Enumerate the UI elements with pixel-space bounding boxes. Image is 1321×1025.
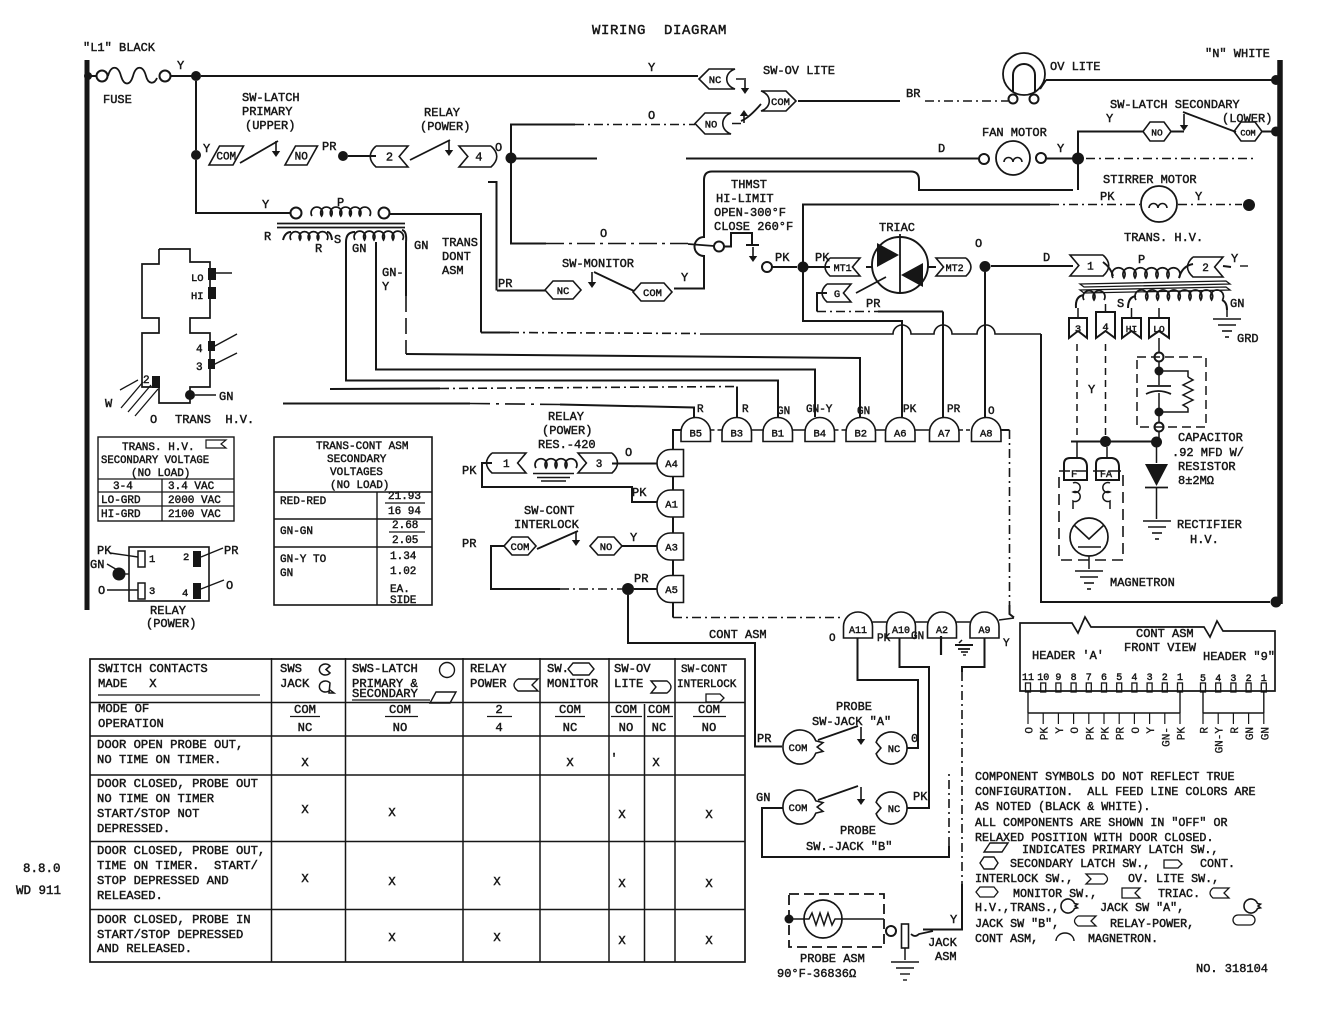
wire GN tap2 to B1 [346,242,778,417]
label CAPACITOR [1172,431,1244,488]
svg-text:CONT ASM: CONT ASM [709,628,767,642]
wire O down to thermostat [511,163,714,246]
svg-text:G: G [834,289,840,301]
svg-text:NO. 318104: NO. 318104 [1196,962,1268,976]
connector B2 [846,418,876,442]
svg-text:X: X [705,877,713,891]
capacitor box dashed [1137,357,1206,427]
label TRANS CONT ASM bracket [442,236,478,278]
svg-text:SIDE: SIDE [390,595,417,607]
table header SW MONITOR [547,662,598,691]
wire probe A NC to A11 [858,638,919,748]
connector A5 [657,576,684,603]
actuator arrow latch secondary [1180,114,1188,131]
svg-text:X: X [301,803,309,817]
svg-text:PK: PK [1085,727,1097,741]
svg-text:COM: COM [511,542,530,554]
svg-text:COM: COM [559,703,581,717]
svg-text:SW.: SW. [547,662,569,676]
svg-text:TIME ON TIMER. START/: TIME ON TIMER. START/ [97,859,258,873]
connector A9 [970,612,999,638]
svg-text:TRANS H.V.: TRANS H.V. [175,413,254,427]
svg-text:AND RELEASED.: AND RELEASED. [97,942,192,956]
wire NO to arrow [1171,131,1184,133]
svg-text:X: X [618,934,626,948]
wire Y to primary [196,160,291,213]
hv primary coil [1103,253,1193,278]
svg-text:Y: Y [630,531,637,545]
svg-text:1: 1 [149,554,155,566]
svg-text:LO-GRD: LO-GRD [101,495,141,507]
label Y jack [950,913,957,927]
svg-text:NC: NC [298,721,313,735]
svg-text:HI-LIMIT: HI-LIMIT [716,192,774,206]
svg-text:RES.-420: RES.-420 [538,438,596,452]
svg-text:WD 911: WD 911 [16,884,61,898]
svg-text:DOOR OPEN PROBE OUT,: DOOR OPEN PROBE OUT, [97,738,243,752]
wire Y filament 4 [1105,344,1107,436]
header B cable [1203,691,1264,724]
junction dot PR A5 [622,583,634,595]
wire A9 to jack Y [923,638,985,930]
cont asm front view box [1020,617,1275,691]
header B wire labels [1200,727,1273,754]
terminal 4 arrow [208,334,237,351]
svg-text:O: O [829,633,836,645]
label PR gate [866,297,880,311]
notes line12 [975,932,1158,946]
label GN over B1 [777,406,790,418]
notes line5 [975,831,1213,845]
label PK coil [462,464,477,478]
label R over B5 [697,404,704,416]
svg-text:SW-OV LITE: SW-OV LITE [763,64,835,78]
hv secondary small [1076,291,1124,311]
label GN pictorial [219,390,233,404]
svg-text:FAN MOTOR: FAN MOTOR [982,126,1047,140]
svg-text:D: D [1043,251,1050,265]
switch blade probe B [818,786,858,800]
wire Y dashdot to right [1086,158,1256,160]
svg-text:INTERLOCK: INTERLOCK [514,518,580,532]
svg-text:(UPPER): (UPPER) [245,119,295,133]
svg-text:LITE: LITE [614,677,643,691]
svg-text:RELAY: RELAY [548,410,584,424]
svg-text:NO: NO [600,542,613,554]
actuator arrow ov-lite [741,80,749,94]
trans hv pictorial body [142,249,210,403]
svg-text:R: R [1230,727,1242,734]
svg-text:DOOR CLOSED, PROBE OUT: DOOR CLOSED, PROBE OUT [97,777,258,791]
probe thermistor [785,900,885,938]
svg-text:H.V.: H.V. [1190,533,1219,547]
connector A1 [657,490,684,517]
svg-text:COM: COM [698,703,720,717]
label 8.8.0 [23,862,61,876]
svg-text:2.68: 2.68 [392,520,418,532]
svg-text:GN-: GN- [1161,727,1173,747]
bracket trans cont asm [488,182,497,291]
svg-text:Y: Y [262,198,269,212]
svg-text:GN-Y: GN-Y [1215,727,1227,754]
svg-text:OV LITE: OV LITE [1050,60,1100,74]
wire Y filament 3 [1076,344,1078,438]
label PR latch primary [322,140,336,154]
label PR over A7 [947,404,961,416]
switch blade monitor [594,272,634,291]
svg-text:SW-LATCH SECONDARY: SW-LATCH SECONDARY [1110,98,1240,112]
label PR interlock [462,537,476,551]
svg-text:2.05: 2.05 [392,535,418,547]
svg-text:COM: COM [648,703,670,717]
label Y A9 [1003,638,1010,650]
svg-text:ALL COMPONENTS ARE SHOWN IN "O: ALL COMPONENTS ARE SHOWN IN "OFF" OR [975,816,1228,830]
wire F up [1076,442,1078,459]
junction dot stirrer Y [1243,199,1255,211]
svg-text:NO: NO [1151,128,1163,139]
header B pins [1200,674,1267,692]
svg-text:START/STOP NOT: START/STOP NOT [97,807,199,821]
label Y fan right [1057,142,1064,156]
svg-text:4: 4 [182,588,188,600]
svg-text:NC: NC [563,721,578,735]
label O thermostat [600,227,607,241]
svg-text:MAGNETRON.: MAGNETRON. [1088,932,1158,946]
trans-cont primary P [291,196,390,219]
svg-text:R: R [742,404,749,416]
svg-text:SECONDARY VOLTAGE: SECONDARY VOLTAGE [101,455,209,467]
wire A8 to header [1001,430,1014,618]
svg-text:GRD: GRD [1237,332,1259,346]
svg-text:9: 9 [1055,673,1061,684]
svg-text:B4: B4 [813,429,826,441]
junction dot cap-filament [1151,437,1162,448]
wire LO to cap [1155,338,1164,362]
svg-text:O: O [1131,727,1143,734]
svg-text:HEADER 'A': HEADER 'A' [1032,649,1104,663]
notes line8 [975,872,1219,886]
svg-text:PR: PR [462,537,476,551]
table header col1 [98,662,260,695]
svg-text:(NO LOAD): (NO LOAD) [330,480,389,492]
svg-text:GN-Y TO: GN-Y TO [280,554,327,566]
svg-text:GN: GN [352,242,366,256]
wire Y up to latch secondary [1078,132,1143,154]
capacitor C1 [1146,362,1171,417]
table header SWS JACK [280,662,334,693]
label SW-LATCH SECONDARY (LOWER) [1110,98,1272,126]
hv core [1080,281,1230,293]
svg-text:JACK SW "B",: JACK SW "B", [975,917,1059,931]
wire GN loop probe B [762,772,949,857]
svg-text:Y: Y [1146,727,1158,734]
svg-text:NC: NC [709,75,722,87]
trans-cont secondary R coil [264,230,332,256]
svg-text:2000 VAC: 2000 VAC [168,495,221,507]
label MAGNETRON [1110,576,1175,590]
svg-text:PK: PK [903,404,917,416]
hv terminal LO [1149,308,1169,338]
svg-text:DOOR CLOSED, PROBE OUT,: DOOR CLOSED, PROBE OUT, [97,844,265,858]
svg-text:SWITCH CONTACTS: SWITCH CONTACTS [98,662,208,676]
label SW-LATCH PRIMARY (UPPER) [242,91,300,133]
svg-text:X: X [388,931,396,945]
connector A3 [657,533,684,560]
junction dot PR [338,151,348,161]
label Y stirrer [1195,190,1202,204]
svg-text:11: 11 [1022,673,1034,684]
wire probe B NC to A10 [900,638,930,808]
terminal LO black [208,268,232,280]
svg-text:FRONT VIEW: FRONT VIEW [1124,641,1197,655]
svg-text:PK: PK [913,790,928,804]
svg-text:LO: LO [191,273,204,285]
svg-text:6: 6 [1101,673,1107,684]
switch SW-LATCH-SECONDARY COM contact [1234,122,1262,141]
svg-text:NO: NO [702,721,717,735]
wire fan to Y junction [1046,158,1073,160]
svg-text:TRANS-CONT ASM: TRANS-CONT ASM [316,441,408,453]
wire O coil to A4 [612,463,657,465]
svg-text:GN-Y: GN-Y [806,404,833,416]
svg-text:SW-JACK "A": SW-JACK "A" [812,715,891,729]
svg-text:O: O [648,109,655,123]
label TRANS HV right [1124,231,1203,245]
svg-text:1: 1 [1177,673,1183,684]
svg-text:A4: A4 [665,459,678,471]
svg-text:X: X [566,756,574,770]
label W [105,397,113,411]
svg-text:PK: PK [815,251,830,265]
label O coil [625,446,632,460]
label RECTIFIER HV [1177,518,1242,547]
connector A6 [886,418,916,442]
svg-text:1: 1 [503,459,510,471]
svg-text:COM: COM [643,288,662,300]
svg-text:A9: A9 [978,626,990,637]
svg-text:Y: Y [382,280,389,294]
hv primary terminal 1 [1070,255,1109,276]
hv secondary main [1128,290,1227,310]
svg-text:PR: PR [498,277,512,291]
links B row [711,429,972,431]
svg-text:R: R [1200,727,1212,734]
svg-text:4: 4 [1131,673,1137,684]
triac gate G [822,277,886,302]
junction dot N latch [1271,127,1281,137]
ground A2 [941,636,973,655]
svg-text:Y: Y [681,271,688,285]
switch SW-LATCH PRIMARY COM contact [209,146,244,165]
svg-text:B5: B5 [689,429,702,441]
header A pins [1022,673,1183,692]
label GN A2 [911,631,924,643]
node L1 label [83,41,156,55]
svg-text:MAGNETRON: MAGNETRON [1110,576,1175,590]
label GN-Y over B4 [806,404,833,416]
svg-text:O: O [988,406,995,418]
wire PK coil to A1 [482,463,657,502]
wire R tap to B5 [283,404,694,418]
label PK stirrer [1100,190,1115,204]
wire primary right to rowC [390,214,482,333]
wire 2 to Y [1223,266,1231,267]
notes line7 [980,857,1235,871]
svg-text:O: O [495,141,502,155]
svg-text:1: 1 [1087,262,1094,274]
wire PK up to stirrer [803,205,1140,263]
trans-cont core [277,224,405,228]
wire Y down to latch COM [195,81,197,150]
label GN over B2 [857,406,870,418]
magnetron ground [1075,556,1103,589]
svg-text:8±2MΩ: 8±2MΩ [1178,474,1214,488]
label 3 pictorial [196,362,203,374]
label PROBE SW-JACK A [812,700,891,729]
table row3 time on timer [97,844,713,903]
svg-text:PK: PK [632,486,647,500]
svg-text:TRANS. H.V.: TRANS. H.V. [122,442,195,454]
svg-text:Y: Y [1231,252,1238,266]
wire stirrer Y dashdot [1178,204,1242,206]
probe jack B COM [783,790,823,824]
svg-text:2: 2 [1202,263,1209,275]
label Y latch secondary [1106,112,1113,126]
svg-text:(POWER): (POWER) [542,424,592,438]
wire COM interlock to A5 [491,546,657,589]
trans-cont secondary GN coil [346,230,428,256]
connector A7 [930,418,960,442]
label CONT ASM [709,628,767,642]
label PR monitor [498,277,512,291]
wire MT1 left [808,266,830,268]
svg-text:A11: A11 [849,626,867,637]
label PROBE SW-JACK B [806,824,892,854]
svg-text:Y: Y [177,59,184,73]
label Y at COM [203,142,210,156]
label PROBE ASM [800,952,865,966]
magnetron tube [1070,518,1108,556]
svg-text:RELAY-POWER,: RELAY-POWER, [1110,917,1194,931]
svg-text:A2: A2 [936,626,948,637]
label O probe A [911,732,918,746]
svg-text:': ' [610,752,617,766]
rectifier ground [1143,521,1171,539]
svg-text:COM: COM [294,703,316,717]
svg-text:COMPONENT SYMBOLS DO NOT REFLE: COMPONENT SYMBOLS DO NOT REFLECT TRUE [975,770,1235,784]
svg-text:START/STOP DEPRESSED: START/STOP DEPRESSED [97,928,243,942]
header A wire labels [1025,727,1189,747]
magnetron filament coils [1073,483,1110,510]
svg-text:COM: COM [771,97,790,109]
wire filament return rowC [481,325,1270,602]
svg-text:Y: Y [1055,727,1067,734]
hv terminal 3 [1069,308,1087,338]
junction dot filament Y [1100,436,1111,447]
relay power pictorial [90,544,238,631]
svg-text:Y: Y [1003,638,1010,650]
svg-text:CONT.: CONT. [1200,857,1235,871]
switch SW-OV-LITE NC contact [699,69,746,89]
svg-text:NO: NO [393,721,408,735]
svg-text:GN-: GN- [382,266,404,280]
svg-text:.92 MFD W/: .92 MFD W/ [1172,446,1244,460]
magnetron box dashed [1059,471,1123,560]
svg-text:X: X [618,877,626,891]
wire PR monitor [497,290,545,292]
svg-text:JACK SW "A",: JACK SW "A", [1100,901,1184,915]
wire GN tap to B2 [406,242,860,417]
svg-text:JACK: JACK [280,677,310,691]
svg-text:PROBE: PROBE [836,700,872,714]
svg-text:X: X [652,756,660,770]
hv terminal 4 [1096,304,1115,338]
svg-text:TRANS: TRANS [442,236,478,250]
label O over A8 [988,406,995,418]
connector A10 [887,612,916,638]
label GN probe B [756,791,770,805]
svg-text:MODE OF: MODE OF [98,702,149,716]
svg-text:PR: PR [634,572,648,586]
svg-text:CONT ASM: CONT ASM [1136,627,1194,641]
svg-text:X: X [493,875,501,889]
svg-text:LO: LO [1153,324,1165,335]
wire A4-A1 link [672,477,674,491]
actuator arrow monitor [588,272,596,288]
svg-text:MT2: MT2 [946,264,964,275]
svg-text:3: 3 [596,459,603,471]
svg-text:A8: A8 [980,429,993,441]
triac terminal MT1 [825,258,872,276]
label PK mt1 [815,251,830,265]
terminal 2 black [152,376,160,388]
table mode rows [98,702,726,735]
svg-text:O: O [600,227,607,241]
relay coil terminal 3 [578,453,618,473]
svg-text:SECONDARY: SECONDARY [352,687,419,701]
wire A5 to cont asm row [673,603,843,618]
svg-text:4: 4 [495,721,502,735]
svg-text:GN: GN [911,631,924,643]
svg-text:4: 4 [196,344,203,356]
svg-text:PR: PR [224,544,238,558]
svg-text:R: R [264,230,271,244]
svg-text:A5: A5 [665,585,678,597]
svg-text:NO TIME ON TIMER: NO TIME ON TIMER [97,792,214,806]
svg-text:A7: A7 [938,429,951,441]
table row1 door open [97,738,660,770]
connector A2 [928,612,957,638]
wire O up and dashdot to NO [511,125,695,154]
connector B3 [722,418,752,442]
label SW-CONT INTERLOCK [514,504,580,532]
svg-text:P: P [337,196,344,210]
svg-text:TRANS. H.V.: TRANS. H.V. [1124,231,1203,245]
svg-text:GN: GN [219,390,233,404]
svg-text:H.V.,TRANS.,: H.V.,TRANS., [975,901,1059,915]
terminal 3 arrow [208,353,237,369]
svg-text:B3: B3 [730,429,743,441]
svg-text:RELAY: RELAY [150,604,186,618]
jack contact [886,924,933,948]
junction dot Y top [191,71,201,81]
terminal HI black [208,287,216,299]
svg-text:RESISTOR: RESISTOR [1178,460,1236,474]
svg-text:INTERLOCK SW.,: INTERLOCK SW., [975,872,1073,886]
label PK probe B [913,790,928,804]
svg-text:X: X [388,875,396,889]
svg-text:Y: Y [203,142,210,156]
